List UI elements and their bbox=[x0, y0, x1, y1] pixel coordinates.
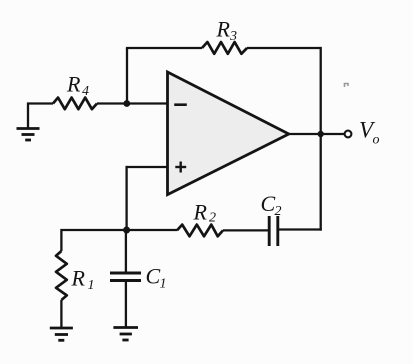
svg-text:C: C bbox=[261, 191, 276, 216]
resistor R4 bbox=[53, 98, 97, 110]
svg-text:4: 4 bbox=[82, 84, 89, 99]
wire: bottom node to C1 bbox=[125, 230, 127, 272]
op-amp minus input sign bbox=[174, 103, 187, 106]
node: bottom junction bbox=[123, 227, 130, 234]
svg-text:1: 1 bbox=[88, 278, 95, 293]
label R1 bbox=[71, 266, 95, 294]
wire: non-inverting input bbox=[127, 166, 168, 168]
wire: C1 to ground bbox=[125, 282, 127, 327]
wire: right vertical feedback bbox=[320, 47, 322, 231]
op-amp U1 bbox=[168, 72, 289, 195]
wire: bottom node to R2 bbox=[127, 229, 177, 231]
ground (under C1) bbox=[113, 328, 138, 341]
wire: R2 to C2 bbox=[223, 229, 269, 231]
svg-text:R: R bbox=[193, 200, 208, 225]
label R2 bbox=[193, 200, 217, 226]
wire: R1 to ground bbox=[60, 300, 62, 327]
resistor R2 bbox=[177, 225, 223, 237]
output terminal (open circle) bbox=[345, 131, 352, 138]
svg-text:2: 2 bbox=[209, 211, 216, 226]
scan artifact mark bbox=[345, 84, 349, 88]
label R3 bbox=[216, 17, 238, 45]
op-amp plus input sign bbox=[175, 162, 186, 173]
resistor R1 bbox=[56, 251, 67, 300]
svg-text:R: R bbox=[66, 72, 81, 97]
resistor R3 bbox=[202, 42, 247, 54]
wire: left ground lead bbox=[28, 104, 53, 128]
label R4 bbox=[66, 72, 89, 100]
node: junction on output bbox=[318, 131, 324, 137]
svg-text:R: R bbox=[216, 17, 231, 42]
ground (under R1) bbox=[50, 328, 73, 340]
node: junction at inverting input bbox=[123, 100, 130, 107]
svg-text:3: 3 bbox=[229, 29, 237, 44]
ground (left, at R4 input) bbox=[17, 129, 40, 141]
label C1 bbox=[146, 264, 167, 292]
wire: R4 to inverting input bbox=[97, 102, 168, 104]
wire: C2 to right vertical bbox=[278, 228, 322, 230]
svg-text:R: R bbox=[71, 266, 86, 291]
wire: bottom node to R1 bbox=[61, 230, 126, 251]
capacitor C1 bbox=[110, 273, 141, 281]
label Vo bbox=[359, 118, 380, 148]
wire: mid vertical (plus input down to bottom node) bbox=[125, 166, 127, 230]
wire: top rail right of R3 bbox=[247, 47, 321, 49]
svg-text:C: C bbox=[146, 264, 161, 289]
capacitor C2 bbox=[269, 216, 278, 246]
label C2 bbox=[261, 191, 282, 219]
svg-text:2: 2 bbox=[275, 204, 282, 219]
wire: top rail left of R3 bbox=[126, 47, 202, 49]
wire: output lead bbox=[290, 133, 345, 135]
svg-text:1: 1 bbox=[160, 277, 167, 292]
svg-text:o: o bbox=[373, 133, 380, 148]
wire: feedback left vertical bbox=[126, 48, 128, 104]
